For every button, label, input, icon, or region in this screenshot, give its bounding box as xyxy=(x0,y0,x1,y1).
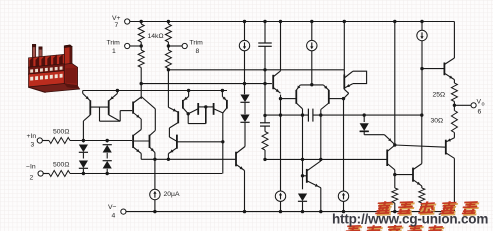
svg-text:http://www.cg-union.com: http://www.cg-union.com xyxy=(332,211,488,226)
svg-text:25Ω: 25Ω xyxy=(433,92,446,99)
svg-text:30Ω: 30Ω xyxy=(431,118,444,125)
svg-text:500Ω: 500Ω xyxy=(53,129,69,136)
svg-text:1: 1 xyxy=(112,48,116,55)
svg-text:7: 7 xyxy=(115,22,119,29)
svg-text:V+: V+ xyxy=(112,15,121,22)
svg-text:V−: V− xyxy=(108,204,117,211)
svg-text:2: 2 xyxy=(30,175,34,182)
svg-text:+In: +In xyxy=(27,133,37,140)
svg-text:Trim: Trim xyxy=(107,39,121,46)
svg-text:20µA: 20µA xyxy=(164,191,180,198)
svg-text:−In: −In xyxy=(26,164,36,171)
svg-text:14kΩ: 14kΩ xyxy=(148,33,164,40)
svg-text:6: 6 xyxy=(478,109,482,116)
svg-text:Trim: Trim xyxy=(190,39,204,46)
svg-text:500Ω: 500Ω xyxy=(53,162,69,169)
svg-text:4: 4 xyxy=(112,212,116,219)
svg-text:3: 3 xyxy=(31,142,35,149)
svg-text:o: o xyxy=(482,102,485,108)
svg-text:8: 8 xyxy=(196,48,200,55)
